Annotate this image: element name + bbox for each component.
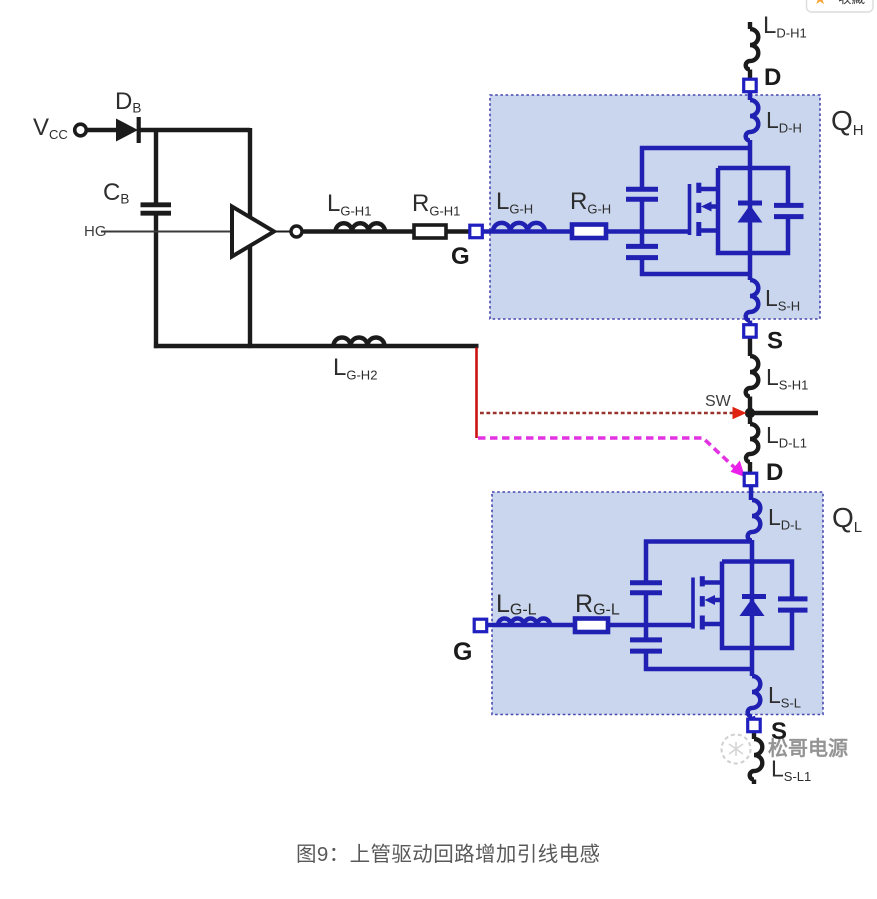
resistor R-G-H bbox=[572, 225, 606, 239]
svg-text:收藏: 收藏 bbox=[838, 0, 866, 6]
driver buffer U1 bbox=[232, 207, 274, 257]
wire SW to L-D-L1 bbox=[748, 413, 752, 424]
svg-text:HG: HG bbox=[84, 223, 107, 240]
terminal VCC circle bbox=[75, 124, 87, 136]
main vertical through cell low bbox=[750, 540, 755, 676]
body arrowhead QL bbox=[705, 595, 716, 605]
inductor L-S-H bbox=[746, 280, 759, 321]
wire node top to CB bbox=[154, 128, 158, 203]
channel segment top low bbox=[700, 576, 705, 586]
MOSFET package box QH bbox=[490, 95, 820, 319]
wire bubble to L-G-H1 bbox=[304, 229, 415, 233]
channel segment bottom bbox=[696, 222, 701, 236]
wire gate line low bbox=[608, 623, 693, 628]
inductor L-D-H1 bbox=[746, 29, 759, 70]
capacitor Crss bbox=[626, 189, 658, 199]
Ciss bottom stub bbox=[640, 260, 645, 276]
inductor L-G-H2 bbox=[334, 338, 385, 347]
gate bar QL bbox=[691, 578, 695, 629]
inductor L-G-H1 bbox=[336, 223, 386, 231]
favorite button top-right (cut off) bbox=[807, 0, 874, 12]
cell frame QH bbox=[718, 168, 788, 253]
driver output bubble bbox=[291, 226, 302, 237]
dashed loop path to SW (dark red) bbox=[480, 412, 735, 415]
inductor L-G-H bbox=[493, 223, 545, 232]
resistor R-G-H1 bbox=[414, 225, 446, 238]
gate bar QH bbox=[688, 184, 692, 235]
svg-text:G: G bbox=[453, 638, 472, 666]
wire top feed stub bbox=[748, 22, 752, 29]
wire L-S-L1 end bbox=[752, 780, 756, 785]
channel segment mid bbox=[696, 203, 701, 213]
cell frame QL bbox=[722, 562, 792, 649]
main vertical through cell bbox=[748, 140, 753, 280]
wire diode to corner bbox=[140, 128, 250, 132]
cell bottom wire bbox=[640, 272, 750, 277]
inductor L-D-L bbox=[748, 500, 761, 541]
terminal square S (high) bbox=[744, 325, 757, 338]
cell top wire low bbox=[644, 539, 752, 544]
wire VCC to diode bbox=[88, 128, 117, 132]
wire L-D-H1 to D terminal bbox=[748, 70, 752, 80]
Ciss bottom stub low bbox=[644, 653, 649, 671]
wire L-S-L to S2 square bbox=[753, 716, 754, 720]
terminal square G (high) bbox=[470, 225, 483, 238]
HG input line bbox=[101, 231, 232, 233]
capacitor Crss low bbox=[630, 583, 662, 593]
terminal square G (low) bbox=[474, 619, 487, 632]
svg-text:G: G bbox=[451, 243, 470, 270]
MOSFET package box QL bbox=[492, 492, 823, 715]
Crss to gate stub low bbox=[644, 595, 649, 638]
wire L-D-L1 to D terminal low bbox=[748, 462, 752, 474]
terminal square S (low) bbox=[748, 719, 761, 732]
diode cathode bar QL bbox=[742, 594, 766, 599]
cell top wire bbox=[640, 146, 750, 151]
wire S2 to L-S-L1 bbox=[752, 731, 756, 739]
capacitor Coss bbox=[774, 205, 804, 216]
svg-text:D: D bbox=[766, 459, 783, 486]
inductor L-S-H1 bbox=[746, 356, 759, 397]
capacitor CB bbox=[141, 205, 172, 213]
drain stub low bbox=[704, 580, 723, 585]
wire triangle tip to bubble bbox=[273, 231, 291, 233]
terminal square D (high) bbox=[744, 79, 757, 92]
body stub low bbox=[713, 598, 723, 603]
resistor R-G-L bbox=[575, 619, 608, 633]
svg-text:图9：上管驱动回路增加引线电感: 图9：上管驱动回路增加引线电感 bbox=[296, 843, 600, 866]
wire L-S-H1 to SW node bbox=[748, 397, 752, 414]
wire R-G-H1 to G terminal bbox=[446, 229, 470, 233]
Crss to gate stub bbox=[640, 201, 645, 244]
wire L-S-H to S square bbox=[748, 321, 753, 327]
wire D2 square to L-D-L bbox=[749, 486, 754, 500]
red feedback wire bbox=[475, 348, 478, 439]
channel segment top bbox=[696, 183, 701, 193]
body diode triangle QH bbox=[738, 205, 763, 223]
watermark logo bbox=[722, 735, 751, 764]
diode cathode bar QH bbox=[738, 201, 762, 206]
capacitor Coss low bbox=[778, 599, 808, 610]
arrowhead magenta to D bbox=[731, 461, 746, 478]
channel segment bottom low bbox=[700, 616, 705, 630]
inductor L-S-L bbox=[748, 676, 761, 717]
body arrowhead QH bbox=[701, 202, 712, 212]
channel segment mid low bbox=[700, 596, 705, 606]
capacitor Ciss low bbox=[630, 640, 662, 651]
wire CB to bottom rail bbox=[154, 216, 158, 349]
svg-text:S: S bbox=[767, 328, 783, 355]
inductor L-D-H bbox=[746, 100, 759, 141]
arrowhead to SW node bbox=[733, 407, 747, 419]
cell bottom wire low bbox=[644, 667, 752, 672]
inductor L-G-L bbox=[498, 619, 550, 626]
svg-text:★: ★ bbox=[813, 0, 827, 8]
dashed loop path magenta bbox=[478, 438, 736, 469]
inductor L-D-L1 bbox=[746, 424, 758, 462]
Crss top stub low bbox=[644, 540, 649, 581]
wire bottom rail left bbox=[154, 344, 479, 348]
body diode triangle QL bbox=[740, 599, 765, 617]
wire SW stub right bbox=[748, 411, 818, 415]
drain stub bbox=[700, 187, 718, 192]
node SW junction dot bbox=[745, 408, 755, 418]
body stub bbox=[709, 204, 718, 209]
wire G terminal to L-G-H bbox=[482, 229, 572, 234]
wire S to L-S-H1 bbox=[748, 337, 752, 356]
capacitor Ciss bbox=[626, 246, 658, 257]
terminal square D (low) bbox=[744, 473, 757, 486]
svg-text:SW: SW bbox=[705, 393, 732, 410]
wire gate line bbox=[606, 229, 690, 234]
svg-text:D: D bbox=[764, 64, 781, 91]
wire G2 terminal to L-G-L bbox=[487, 623, 575, 628]
wire D square to L-D-H bbox=[748, 92, 753, 101]
diode DB bbox=[116, 117, 139, 143]
svg-text:S: S bbox=[771, 718, 787, 745]
Crss top stub bbox=[640, 146, 645, 187]
wire right vertical of driver loop bbox=[248, 128, 252, 348]
source stub low bbox=[704, 622, 723, 627]
source stub bbox=[700, 228, 718, 233]
inductor L-S-L1 bbox=[750, 739, 763, 780]
